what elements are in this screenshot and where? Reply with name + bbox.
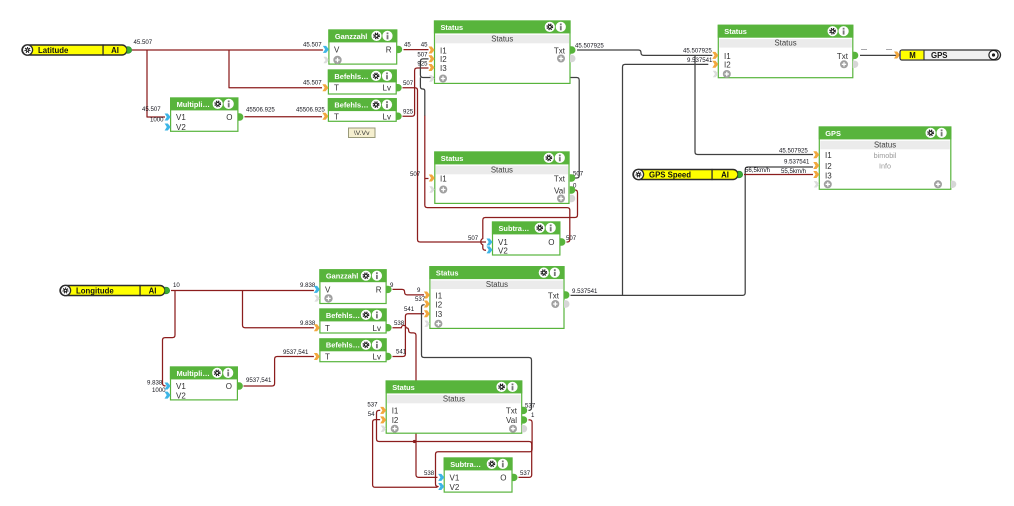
svg-text:I3: I3 <box>436 310 443 319</box>
label 537 before Status5 I1 <box>367 402 378 409</box>
wire GPS Speed to GPS I3 <box>744 174 813 176</box>
svg-text:925: 925 <box>417 60 428 67</box>
svg-text:Longitude: Longitude <box>76 286 114 295</box>
label 45.507 at latitude output <box>134 39 153 46</box>
svg-text:Txt: Txt <box>548 291 560 300</box>
svg-text:---: --- <box>861 46 867 53</box>
svg-text:O: O <box>500 474 506 483</box>
label 45.507 before Ganzzahl V <box>303 42 322 49</box>
svg-text:I1: I1 <box>440 174 447 183</box>
svg-text:507: 507 <box>566 235 577 242</box>
function block Subtra U7 <box>487 221 566 255</box>
function block Status U8 <box>712 25 858 78</box>
svg-text:I1: I1 <box>436 291 443 300</box>
svg-text:Lv: Lv <box>383 84 391 93</box>
svg-text:Txt: Txt <box>554 174 566 183</box>
wire Befehls1 Lv 507 down <box>403 88 487 242</box>
svg-text:Multipli…: Multipli… <box>177 369 210 378</box>
label 9.537541 before GPS I2 <box>784 158 810 165</box>
wire Befehls3 Lv 538 down to Subtra2 V1 <box>393 325 438 477</box>
function block Status U6 <box>429 151 575 203</box>
svg-text:Ganzzahl: Ganzzahl <box>326 272 358 281</box>
label 45.507925 at Status1 Txt <box>575 43 604 50</box>
svg-text:Val: Val <box>506 416 517 425</box>
svg-text:10: 10 <box>173 282 180 289</box>
svg-text:45.507: 45.507 <box>303 42 322 49</box>
svg-text:Multipli…: Multipli… <box>177 100 210 109</box>
svg-text:Status: Status <box>486 280 508 289</box>
input GPS Speed AI <box>633 169 743 179</box>
svg-text:507: 507 <box>410 171 421 178</box>
svg-text:Status: Status <box>491 34 513 43</box>
svg-text:V1: V1 <box>176 113 186 122</box>
svg-text:I1: I1 <box>724 52 731 61</box>
label 538 at Befehls3 Lv <box>394 320 405 327</box>
svg-text:GPS: GPS <box>931 51 947 60</box>
function block Befehls U12 <box>314 338 392 361</box>
wire Subtra2 O loop to Status5 I1 <box>377 410 532 477</box>
label 45 at Ganzzahl R <box>404 42 411 49</box>
function block Status U5 <box>429 20 576 83</box>
svg-text:Lv: Lv <box>373 353 381 362</box>
svg-text:O: O <box>226 382 232 391</box>
function block Befehls U3 <box>322 98 401 121</box>
svg-text:537: 537 <box>415 296 426 303</box>
svg-text:507: 507 <box>468 235 479 242</box>
svg-text:M: M <box>909 51 916 60</box>
svg-text:9.838: 9.838 <box>300 282 316 289</box>
label 507 before Subtra1 V1 <box>468 235 479 242</box>
function block Multipli U4 <box>165 97 244 132</box>
svg-text:537: 537 <box>367 402 378 409</box>
svg-text:Subtra…: Subtra… <box>499 224 530 233</box>
junction dot at wire crossing <box>413 440 416 443</box>
svg-text:538: 538 <box>394 320 405 327</box>
svg-text:V1: V1 <box>450 474 460 483</box>
wire Ganzzahl2 R to Status4 I1 <box>393 289 425 295</box>
wire Ganzzahl1 R to Status1 I1 <box>404 49 429 51</box>
svg-text:GPS: GPS <box>825 129 841 138</box>
input Longitude AI <box>60 285 170 295</box>
label 537 before Status4 I2 <box>415 296 426 303</box>
svg-text:Info: Info <box>879 162 891 171</box>
svg-text:56,5km/h: 56,5km/h <box>745 167 770 174</box>
input Latitude AI <box>22 45 132 55</box>
svg-text:Befehls…: Befehls… <box>326 311 360 320</box>
function block Ganzzahl U1 <box>323 29 402 64</box>
wire latitude branch to Multipli V1 <box>147 50 165 117</box>
label 9537.541 at Multipli2 O <box>246 377 272 384</box>
svg-text:541: 541 <box>404 306 415 313</box>
label 55.5kmh before GPS I3 <box>781 168 806 175</box>
svg-text:45.507: 45.507 <box>134 39 153 46</box>
wire Status3 Txt to GPS output M <box>860 54 896 56</box>
tooltip format V.Vv <box>349 128 376 138</box>
svg-text:45: 45 <box>421 42 428 49</box>
label 1 at Status5 Val <box>531 412 535 419</box>
svg-text:V2: V2 <box>450 483 460 492</box>
label 507 at Status2 Txt <box>573 171 584 178</box>
label 45.507925 before Status3 I1 <box>683 47 712 54</box>
svg-text:O: O <box>548 238 554 247</box>
svg-text:I2: I2 <box>436 300 443 309</box>
svg-text:45.507925: 45.507925 <box>683 47 712 54</box>
svg-text:AI: AI <box>149 286 157 295</box>
svg-text:\V.Vv: \V.Vv <box>354 130 370 137</box>
svg-text:9537,541: 9537,541 <box>246 377 272 384</box>
label 507 before Status1 I2 <box>417 51 428 58</box>
svg-text:Latitude: Latitude <box>38 46 69 55</box>
svg-text:Status: Status <box>874 140 896 149</box>
svg-text:T: T <box>325 324 330 333</box>
label 9.838 before Multipli2 V1 <box>147 379 163 386</box>
wire Status1 Txt to Status3 I1 <box>577 50 712 55</box>
svg-text:Ganzzahl: Ganzzahl <box>335 32 367 41</box>
svg-text:AI: AI <box>111 46 119 55</box>
label 537 at Subtra2 O <box>520 470 531 477</box>
label 541 before Status4 I3 <box>404 306 415 313</box>
label 45.507 before Multipli V1 <box>142 106 161 113</box>
label 1000 at Multipli2 V2 <box>152 387 166 394</box>
svg-text:9.537541: 9.537541 <box>687 57 713 64</box>
label 45.507 before Befehls1 T <box>303 80 322 87</box>
label 45 before Status1 I1 <box>421 42 428 49</box>
wire branch to GPS I1 <box>695 55 813 154</box>
svg-text:I2: I2 <box>440 55 447 64</box>
svg-text:9537,541: 9537,541 <box>283 349 309 356</box>
function block GPS U9 <box>813 126 956 189</box>
function block Ganzzahl U10 <box>314 269 392 303</box>
svg-text:Subtra…: Subtra… <box>450 460 481 469</box>
label dashes before GPS out M <box>886 46 892 53</box>
wire gray jog down to Status2 I1 vertical <box>420 78 424 116</box>
svg-text:9.838: 9.838 <box>300 320 316 327</box>
svg-text:Status: Status <box>441 154 464 163</box>
wire longitude main y290.5 <box>171 290 314 292</box>
svg-text:I2: I2 <box>392 416 399 425</box>
label 541 at Befehls4 Lv <box>396 349 407 356</box>
label 56.5kmh at GPS Speed out <box>745 167 770 174</box>
svg-text:Status: Status <box>443 394 465 403</box>
svg-text:Befehls…: Befehls… <box>334 101 368 110</box>
svg-text:Lv: Lv <box>383 112 391 121</box>
label 537 at Status5 Txt <box>525 403 536 410</box>
function block Befehls U11 <box>314 308 392 333</box>
svg-text:Txt: Txt <box>506 407 518 416</box>
svg-text:9.838: 9.838 <box>147 379 163 386</box>
label 9.838 before Ganzzahl2 V <box>300 282 316 289</box>
wire Status5 Val to Subtra2 V2 <box>436 420 533 487</box>
svg-text:925: 925 <box>403 108 414 115</box>
svg-text:541: 541 <box>396 349 407 356</box>
svg-text:GPS Speed: GPS Speed <box>649 170 691 179</box>
svg-text:I3: I3 <box>440 64 447 73</box>
svg-text:I1: I1 <box>392 407 399 416</box>
output M GPS <box>894 50 1001 60</box>
svg-text:V2: V2 <box>176 391 186 400</box>
wire Status2 Val to Subtra1 V2 <box>481 190 578 250</box>
svg-text:AI: AI <box>721 170 729 179</box>
function block Subtra U16 <box>438 457 517 492</box>
svg-text:1000: 1000 <box>152 387 166 394</box>
svg-text:9.537541: 9.537541 <box>572 288 598 295</box>
svg-text:45.507: 45.507 <box>303 80 322 87</box>
svg-text:T: T <box>325 353 330 362</box>
label 9 at Ganzzahl2 R <box>390 282 394 289</box>
label 0 at Status2 Val <box>573 183 577 190</box>
svg-text:I2: I2 <box>724 61 731 70</box>
svg-text:Status: Status <box>774 39 796 48</box>
label 507 at Subtra1 O <box>566 235 577 242</box>
svg-text:537: 537 <box>520 470 531 477</box>
function block Multipli U13 <box>165 366 243 400</box>
svg-text:54: 54 <box>368 411 375 418</box>
function block Status U15 <box>380 380 527 433</box>
label 507 before Status2 I1 <box>410 171 421 178</box>
svg-text:Status: Status <box>436 269 459 278</box>
wire Status4 Txt to Status3 I2 and GPS I2 <box>571 64 814 295</box>
svg-text:V: V <box>334 45 340 54</box>
svg-text:bimobil: bimobil <box>874 151 897 160</box>
svg-text:Status: Status <box>491 165 513 174</box>
svg-text:45506.925: 45506.925 <box>296 107 325 114</box>
svg-text:Txt: Txt <box>554 46 566 55</box>
wire I2 Status5 elbow <box>373 420 438 488</box>
svg-text:I3: I3 <box>825 172 832 181</box>
svg-text:45.507925: 45.507925 <box>779 148 808 155</box>
label 925 before Status1 I3 <box>417 60 428 67</box>
svg-text:I1: I1 <box>440 46 447 55</box>
wire Status5 Txt gray up to Status4 I2 <box>422 305 532 411</box>
svg-text:Txt: Txt <box>837 52 849 61</box>
svg-text:9.537541: 9.537541 <box>784 158 810 165</box>
wire Befehls2 Lv 925 to Status1 I3 <box>403 68 429 116</box>
svg-text:Status: Status <box>441 23 464 32</box>
label 507 at Befehls1 Lv <box>403 80 414 87</box>
svg-text:R: R <box>386 45 392 54</box>
function block Befehls U2 <box>322 69 401 94</box>
label 538 before Subtra2 V1 <box>424 470 435 477</box>
svg-text:O: O <box>226 113 232 122</box>
wire Status2 Txt gray up to Status1 I2 <box>420 59 579 178</box>
svg-text:45506.925: 45506.925 <box>246 107 275 114</box>
svg-text:Status: Status <box>392 383 415 392</box>
label 9.537541 before Status3 I2 <box>687 57 713 64</box>
svg-text:45.507925: 45.507925 <box>575 43 604 50</box>
svg-text:45.507: 45.507 <box>142 106 161 113</box>
label 1000 at Multipli V2 <box>150 117 164 124</box>
label 9537.541 before Befehls4 T <box>283 349 309 356</box>
svg-text:1000: 1000 <box>150 117 164 124</box>
svg-text:I2: I2 <box>825 162 832 171</box>
label 10 at longitude output <box>173 282 180 289</box>
label 9.537541 at Status4 Txt <box>572 288 598 295</box>
svg-text:R: R <box>376 285 382 294</box>
svg-text:I1: I1 <box>825 151 832 160</box>
label 9.838 before Befehls3 T <box>300 320 316 327</box>
label dashes at Status3 Txt <box>861 46 867 53</box>
svg-text:Befehls…: Befehls… <box>334 72 368 81</box>
svg-text:V: V <box>325 285 331 294</box>
svg-text:Lv: Lv <box>373 324 381 333</box>
wire latitude branch to Befehls1 T <box>229 50 322 88</box>
wire longitude branch to Befehls3 T <box>243 291 314 328</box>
svg-text:55,5km/h: 55,5km/h <box>781 168 806 175</box>
label 45506.925 before Befehls2 T <box>296 107 325 114</box>
svg-text:Status: Status <box>724 27 747 36</box>
svg-text:Val: Val <box>554 186 565 195</box>
wire longitude branch to Multipli2 V1 <box>162 291 175 386</box>
svg-text:---: --- <box>886 46 892 53</box>
svg-text:45: 45 <box>404 42 411 49</box>
label 45.507925 before GPS I1 <box>779 148 808 155</box>
svg-text:507: 507 <box>403 80 414 87</box>
function block Status U14 <box>424 266 570 328</box>
wire latitude main y50 <box>132 49 323 51</box>
wire Subtra1 O loop to Status2 I1 <box>425 116 570 243</box>
svg-text:V2: V2 <box>176 123 186 132</box>
label 54 before Status5 I2 <box>368 411 375 418</box>
label 45506.925 at Multipli O <box>246 107 275 114</box>
label 9 before Status4 I1 <box>417 287 421 294</box>
svg-text:Befehls…: Befehls… <box>326 341 360 350</box>
wire Multipli1 O to Befehls2 T <box>245 116 323 118</box>
svg-text:507: 507 <box>417 51 428 58</box>
svg-text:538: 538 <box>424 470 435 477</box>
svg-text:T: T <box>334 84 339 93</box>
svg-text:T: T <box>334 112 339 121</box>
label 925 at Befehls2 Lv <box>403 108 414 115</box>
svg-text:V2: V2 <box>498 246 508 255</box>
wire Befehls4 Lv 541 to Status4 I3 <box>393 314 425 357</box>
svg-text:V1: V1 <box>176 382 186 391</box>
wire Multipli2 O to Befehls4 T <box>244 357 314 387</box>
